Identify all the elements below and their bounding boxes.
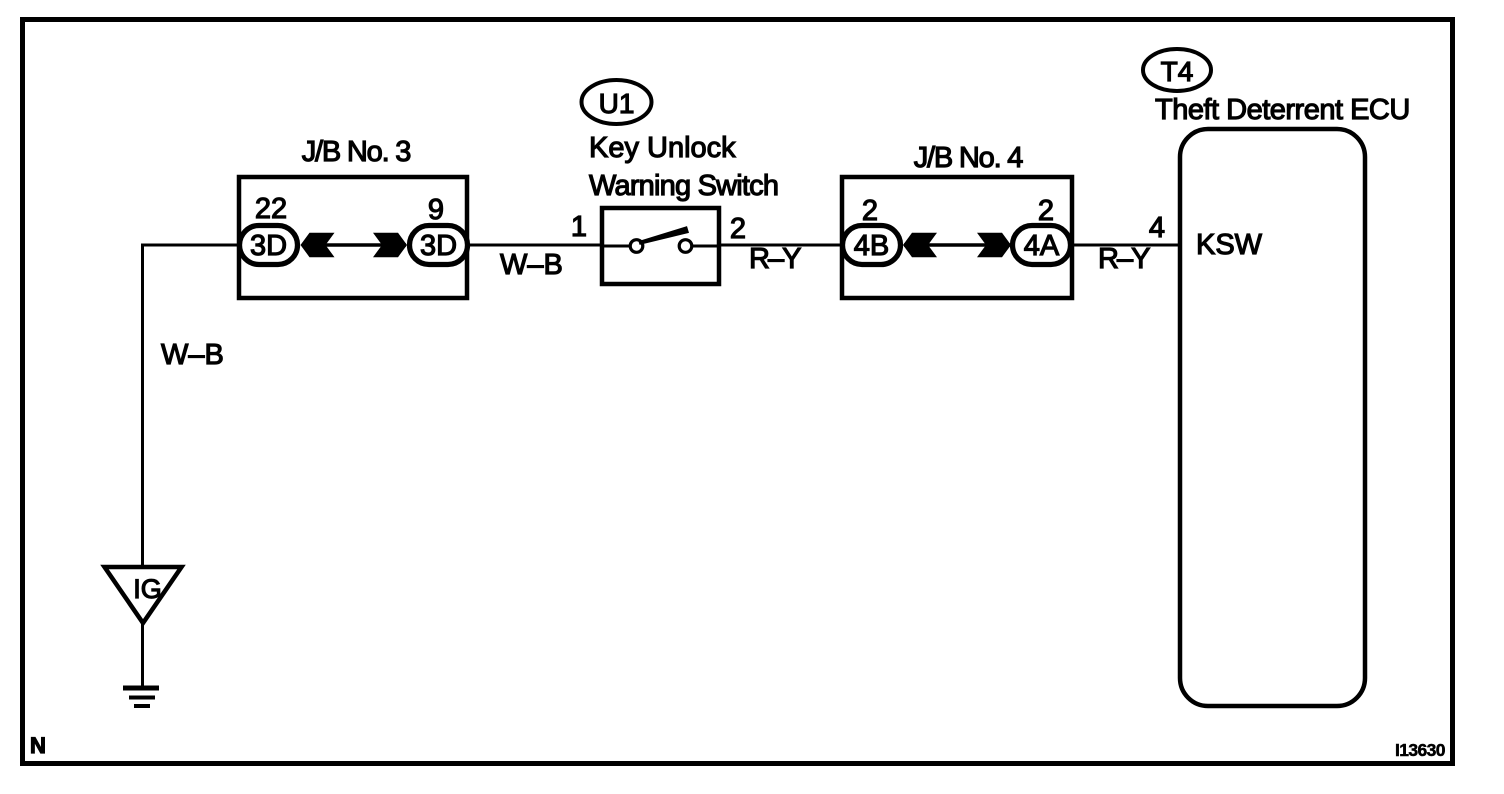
wire between arrows (J/B No.4) [904,243,1010,247]
svg-text:3D: 3D [420,230,457,262]
pin 4 (ECU) [1149,212,1165,244]
svg-text:Key Unlock: Key Unlock [589,132,736,164]
label W-B (vertical wire) [161,339,224,371]
label R-Y (wire switch to J/B No.4) [749,243,801,275]
svg-text:U1: U1 [599,88,635,119]
connector 4B [843,226,901,265]
component oval T4 [1143,49,1211,91]
label J/B No. 3 [302,136,411,168]
svg-text:W–B: W–B [500,249,563,281]
wire: vertical W-B drop to IG [141,244,144,568]
pin 2 (4B) [862,195,878,227]
svg-text:Warning Switch: Warning Switch [589,170,778,202]
svg-text:W–B: W–B [161,339,224,371]
arrow left (J/B No.3) [301,233,335,257]
pin 22 [255,193,287,225]
wire: J/B No.3 to switch [467,244,602,247]
arrow right (J/B No.4) [977,233,1011,257]
label J/B No. 4 [914,142,1024,174]
wire between arrows (J/B No.3) [302,243,406,247]
svg-text:9: 9 [428,194,444,226]
svg-text:2: 2 [730,213,746,245]
svg-text:J/B No. 3: J/B No. 3 [302,136,411,168]
label Key Unlock Warning Switch [589,132,778,202]
label W-B (wire to switch) [500,249,563,281]
junction block J/B No. 3 box [239,177,467,298]
svg-text:J/B No. 4: J/B No. 4 [914,142,1024,174]
wire: switch to J/B No.4 [719,244,842,247]
component oval U1 [582,80,652,124]
svg-text:N: N [30,733,46,758]
arrow right (J/B No.3) [373,233,407,257]
pin 2 (switch) [730,213,746,245]
note N [30,733,46,758]
junction block J/B No. 4 box [842,177,1072,298]
wire: IG to ground [141,623,144,687]
power symbol IG triangle [105,567,182,623]
pin 2 (4A) [1038,195,1054,227]
figure number I13630 [1395,740,1446,760]
svg-text:2: 2 [1038,195,1054,227]
svg-text:3D: 3D [250,230,287,262]
pin 9 [428,194,444,226]
svg-text:I13630: I13630 [1395,740,1446,760]
svg-text:2: 2 [862,195,878,227]
label Theft Deterrent ECU [1155,94,1410,126]
pin 1 (switch) [571,211,587,243]
svg-text:4B: 4B [854,230,889,262]
svg-text:Theft Deterrent ECU: Theft Deterrent ECU [1155,94,1410,126]
connector 4A [1013,226,1071,265]
label R-Y (wire J/B No.4 to ECU) [1098,243,1150,275]
svg-text:R–Y: R–Y [749,243,801,275]
svg-text:R–Y: R–Y [1098,243,1150,275]
svg-text:4: 4 [1149,212,1165,244]
connector 3D (pin 9) [410,226,468,265]
connector 3D (pin 22) [240,226,298,265]
svg-text:KSW: KSW [1196,229,1263,261]
arrow left (J/B No.4) [903,233,937,257]
svg-text:1: 1 [571,211,587,243]
svg-text:4A: 4A [1024,230,1060,262]
wire: J/B No.4 to ECU [1070,244,1180,247]
svg-text:22: 22 [255,193,287,225]
svg-text:T4: T4 [1161,56,1194,87]
wire: main horizontal from corner to J/B No.3 [143,244,240,247]
label KSW [1196,229,1263,261]
switch contacts and lever [602,226,719,252]
ground [123,688,159,706]
switch U1 box [602,208,719,284]
Theft Deterrent ECU box [1180,129,1365,706]
svg-text:IG: IG [133,574,162,604]
